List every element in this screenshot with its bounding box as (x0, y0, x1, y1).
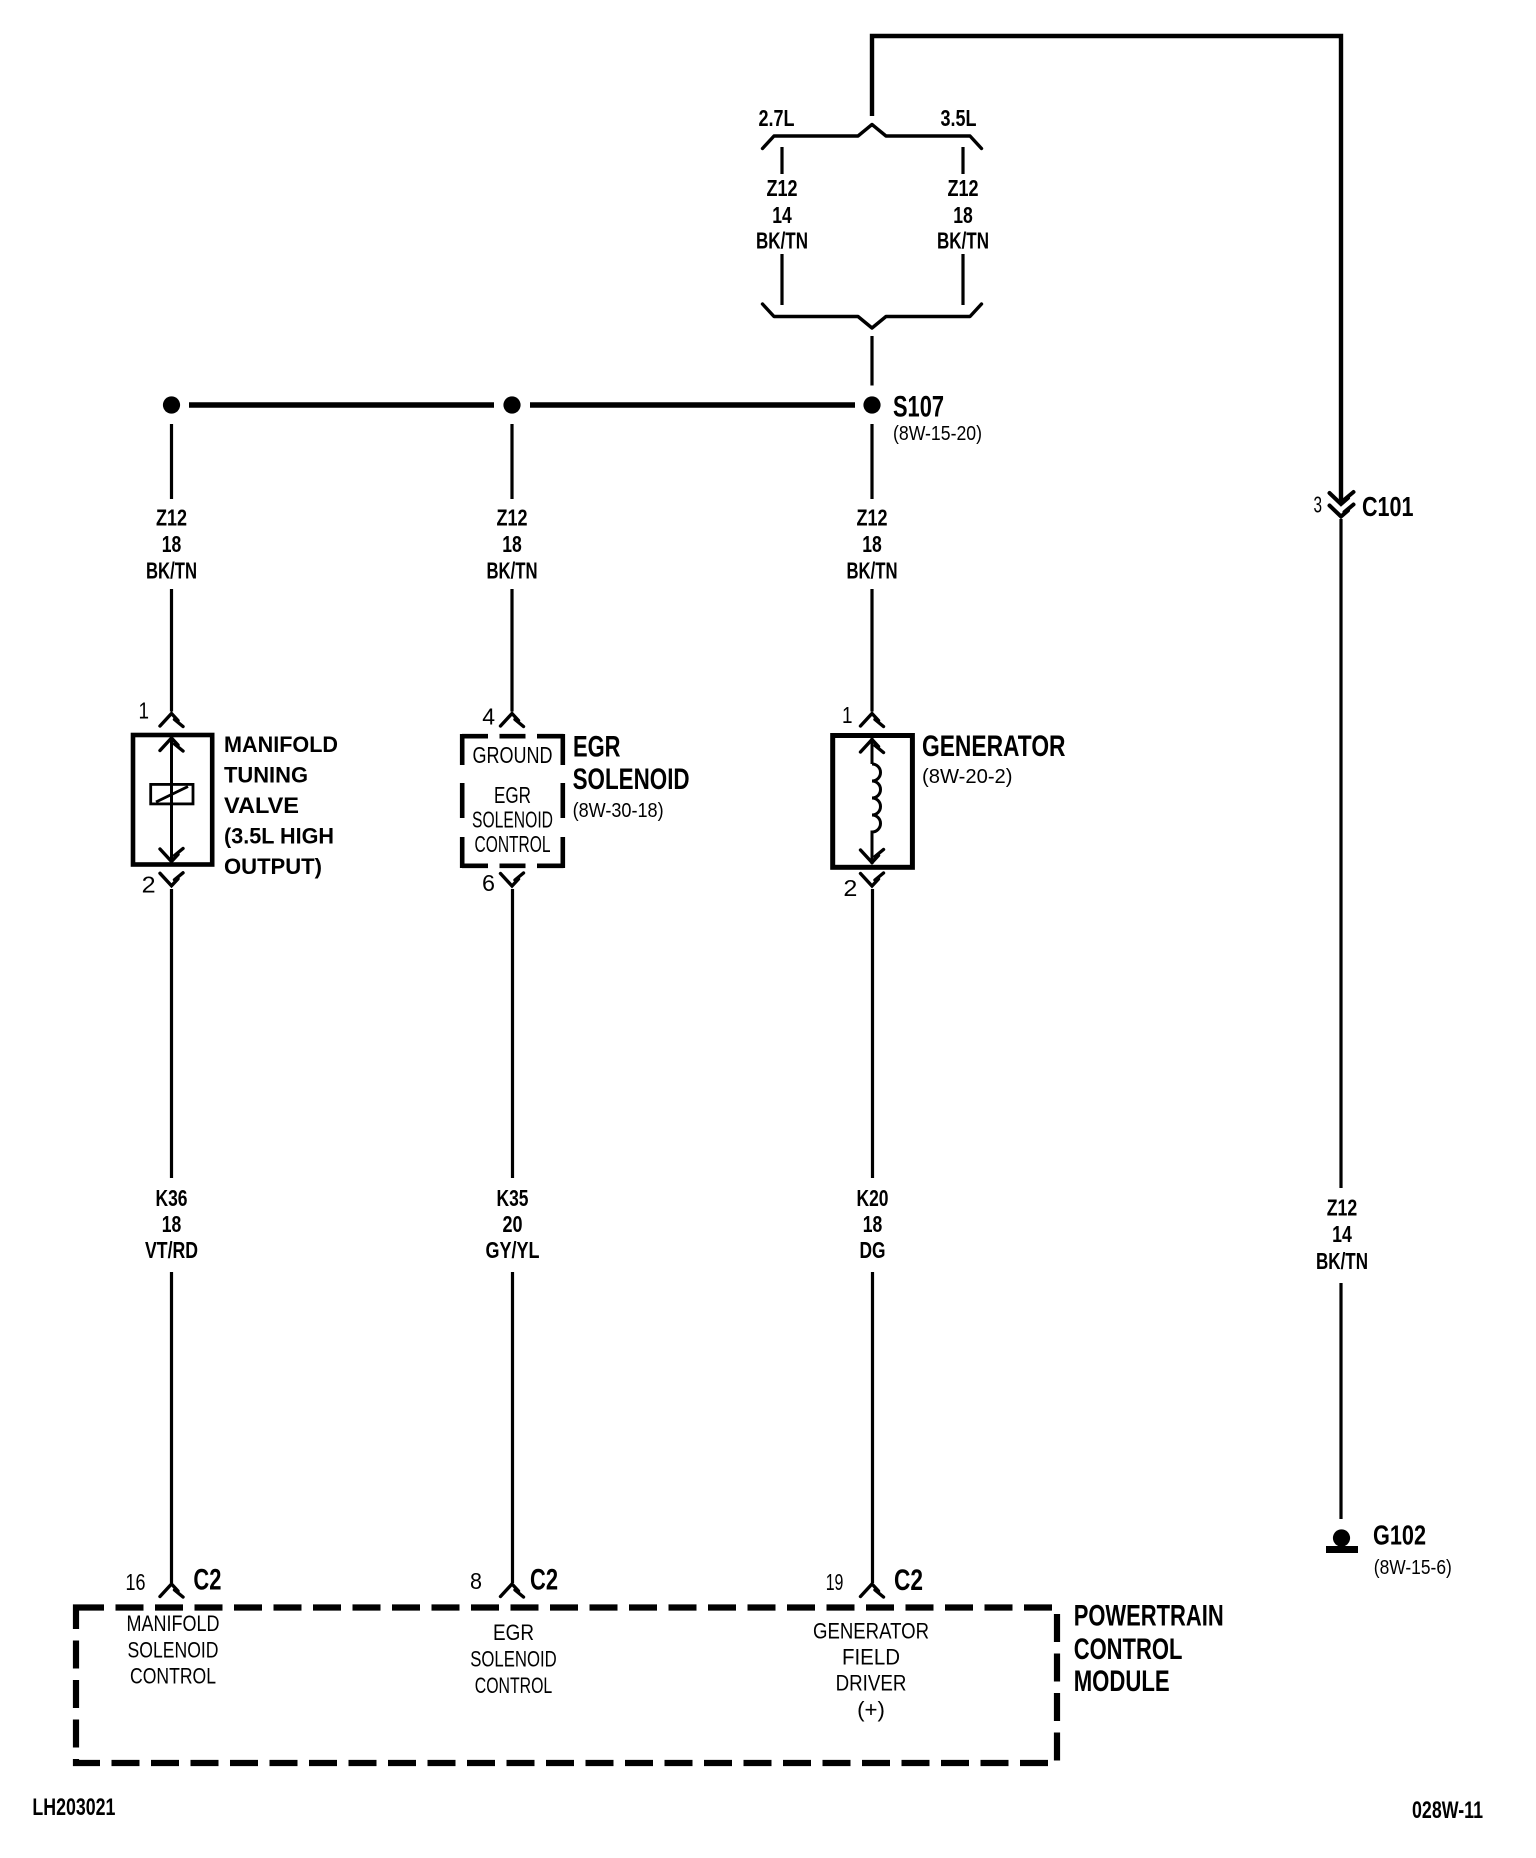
svg-text:MANIFOLD: MANIFOLD (127, 1611, 220, 1636)
svg-text:SOLENOID: SOLENOID (472, 807, 553, 833)
wire from label to G102 (1339, 1283, 1342, 1519)
wire drop below splice x=171.5 (170, 424, 173, 499)
wire drop below splice x=872 (870, 424, 873, 499)
svg-text:FIELD: FIELD (842, 1645, 900, 1670)
svg-text:1: 1 (842, 702, 853, 728)
svg-text:CONTROL: CONTROL (475, 831, 551, 857)
svg-text:EGR: EGR (494, 782, 531, 808)
svg-text:3: 3 (1314, 492, 1323, 518)
pin 1 of generator (861, 714, 884, 727)
wire top feed from splice up/over/down right side (872, 36, 1341, 502)
node S107 splice bus wire (189, 402, 494, 408)
wire to component x=171.5 (170, 589, 173, 712)
svg-text:CONTROL: CONTROL (475, 1673, 553, 1698)
svg-text:4: 4 (482, 704, 495, 730)
wire from component to label x=872.5 (871, 889, 874, 1178)
manifold tuning valve box (133, 735, 212, 865)
svg-text:CONTROL: CONTROL (130, 1664, 216, 1689)
junction dot S107 (863, 396, 880, 413)
junction dot middle (503, 396, 520, 413)
pin 16 C2 of PCM (160, 1584, 183, 1597)
svg-text:C2: C2 (894, 1564, 923, 1597)
generator internal terminal arrow bottom (861, 850, 884, 863)
svg-text:(8W-30-18): (8W-30-18) (573, 800, 664, 822)
svg-text:BK/TN: BK/TN (756, 228, 808, 254)
junction dot left (163, 396, 180, 413)
pin 19 C2 of PCM (861, 1584, 884, 1597)
wire from label to PCM x=872.5 (871, 1272, 874, 1583)
svg-text:18: 18 (162, 531, 182, 557)
generator internal terminal arrow top (871, 738, 874, 764)
MTV internal terminal arrow top (160, 738, 183, 751)
svg-text:K36: K36 (156, 1185, 188, 1211)
ground G102 symbol (1333, 1529, 1350, 1546)
svg-text:(8W-20-2): (8W-20-2) (922, 766, 1013, 788)
svg-text:BK/TN: BK/TN (146, 557, 197, 583)
wire 3.5L stub upper (961, 147, 964, 174)
svg-text:Z12: Z12 (767, 175, 798, 201)
svg-text:SOLENOID: SOLENOID (573, 763, 690, 796)
svg-text:(3.5L HIGH: (3.5L HIGH (224, 824, 334, 849)
MTV internal conductor (170, 737, 173, 862)
wire to component x=512 (510, 589, 513, 712)
svg-text:POWERTRAIN: POWERTRAIN (1074, 1599, 1224, 1632)
svg-text:19: 19 (826, 1569, 844, 1595)
svg-text:2.7L: 2.7L (759, 105, 795, 131)
pin 6 of EGR solenoid (501, 873, 524, 886)
svg-text:GROUND: GROUND (473, 742, 553, 768)
bottom brace of variant bracket (763, 304, 982, 328)
svg-text:BK/TN: BK/TN (937, 228, 989, 254)
wire from label to PCM x=512.5 (511, 1272, 514, 1583)
MTV solenoid valve element (151, 784, 193, 804)
svg-text:14: 14 (772, 202, 792, 228)
svg-text:K20: K20 (857, 1185, 889, 1211)
svg-text:DG: DG (860, 1237, 886, 1263)
svg-text:18: 18 (502, 531, 522, 557)
wire to component x=872 (870, 589, 873, 712)
pin 8 C2 of PCM (501, 1584, 524, 1597)
svg-text:BK/TN: BK/TN (487, 557, 538, 583)
svg-text:LH203021: LH203021 (32, 1794, 115, 1821)
wire from component to label x=171.5 (170, 889, 173, 1178)
svg-text:C2: C2 (193, 1564, 221, 1597)
svg-text:Z12: Z12 (857, 505, 888, 531)
svg-text:18: 18 (953, 202, 973, 228)
svg-text:2: 2 (843, 875, 857, 901)
svg-text:SOLENOID: SOLENOID (470, 1646, 557, 1671)
wire C101 down to label (1339, 519, 1342, 1188)
svg-text:GENERATOR: GENERATOR (813, 1619, 929, 1644)
svg-text:18: 18 (863, 1211, 883, 1237)
svg-text:DRIVER: DRIVER (836, 1671, 907, 1696)
wire drop below splice x=512 (510, 424, 513, 499)
svg-text:CONTROL: CONTROL (1074, 1633, 1183, 1666)
svg-text:Z12: Z12 (1327, 1195, 1358, 1221)
svg-text:(8W-15-6): (8W-15-6) (1374, 1557, 1452, 1579)
pin 2 of generator (861, 873, 884, 886)
svg-text:G102: G102 (1373, 1520, 1426, 1551)
svg-text:(8W-15-20): (8W-15-20) (893, 423, 982, 445)
svg-text:EGR: EGR (493, 1620, 534, 1645)
svg-text:BK/TN: BK/TN (1316, 1248, 1368, 1274)
svg-text:SOLENOID: SOLENOID (128, 1637, 219, 1662)
wire 3.5L stub lower (961, 254, 964, 305)
svg-text:OUTPUT): OUTPUT) (224, 854, 322, 879)
svg-text:8: 8 (470, 1568, 482, 1594)
svg-text:2: 2 (142, 872, 156, 898)
wire from component to label x=512.5 (511, 889, 514, 1178)
svg-text:(+): (+) (857, 1697, 885, 1722)
MTV internal terminal arrow bottom (160, 849, 183, 862)
svg-text:C101: C101 (1362, 491, 1414, 522)
svg-text:C2: C2 (530, 1564, 558, 1597)
connector C101 in-line symbol (1330, 492, 1354, 504)
wire 2.7L stub lower (780, 254, 783, 305)
svg-text:K35: K35 (497, 1185, 529, 1211)
svg-text:16: 16 (126, 1569, 146, 1595)
svg-text:20: 20 (503, 1211, 523, 1237)
svg-text:18: 18 (162, 1211, 182, 1237)
svg-text:GENERATOR: GENERATOR (922, 730, 1066, 763)
pin 2 of manifold tuning valve (160, 873, 183, 886)
svg-text:3.5L: 3.5L (941, 105, 977, 131)
svg-text:GY/YL: GY/YL (486, 1237, 540, 1263)
wire from label to PCM x=171.5 (170, 1272, 173, 1583)
svg-text:028W-11: 028W-11 (1412, 1797, 1483, 1824)
svg-text:TUNING: TUNING (224, 762, 308, 787)
svg-text:VALVE: VALVE (224, 793, 299, 818)
generator box (833, 736, 913, 868)
svg-text:Z12: Z12 (948, 175, 979, 201)
EGR solenoid dashed box (462, 734, 488, 739)
node 2.7L/3.5L wire variant bracket (top brace) (763, 125, 982, 149)
generator field coil (872, 764, 881, 864)
wire 2.7L stub upper (780, 147, 783, 174)
svg-text:6: 6 (482, 870, 495, 896)
svg-text:Z12: Z12 (156, 505, 187, 531)
pin 1 of manifold tuning valve (160, 714, 183, 727)
svg-text:BK/TN: BK/TN (847, 557, 898, 583)
wire from bracket to S107 (870, 336, 873, 386)
svg-text:1: 1 (139, 698, 150, 724)
svg-text:S107: S107 (893, 391, 944, 424)
svg-text:14: 14 (1332, 1221, 1352, 1247)
powertrain control module dashed box (76, 1608, 1057, 1764)
svg-text:Z12: Z12 (497, 505, 528, 531)
svg-text:VT/RD: VT/RD (145, 1237, 198, 1263)
svg-text:EGR: EGR (573, 730, 621, 763)
svg-text:MANIFOLD: MANIFOLD (224, 732, 338, 757)
svg-text:MODULE: MODULE (1074, 1665, 1170, 1698)
pin 4 of EGR solenoid (501, 714, 524, 727)
svg-text:18: 18 (862, 531, 882, 557)
